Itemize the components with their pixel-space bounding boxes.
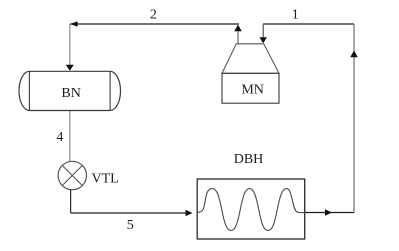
svg-text:1: 1 (292, 8, 299, 23)
heater DBH coil wave (197, 189, 305, 231)
svg-text:MN: MN (241, 83, 264, 98)
heater DBH rect (197, 179, 305, 239)
wire MN outlet up (237, 30, 239, 44)
wire VTL outlet down (70, 190, 72, 214)
wire stream 5 horizontal (71, 212, 187, 214)
svg-text:4: 4 (56, 130, 63, 145)
wire right riser (353, 24, 355, 213)
svg-text:5: 5 (127, 218, 134, 233)
arrowhead into MN (259, 37, 267, 43)
wire stream 1 drop into MN (262, 24, 264, 39)
arrowhead into BN (66, 65, 74, 71)
arrowhead MN outlet up (234, 25, 242, 32)
wire DBH outlet (305, 212, 354, 214)
arrowhead DBH outlet right (325, 209, 332, 216)
svg-text:DBH: DBH (234, 152, 264, 167)
arrowhead riser up (350, 51, 358, 58)
hopper MN body rect (222, 73, 279, 103)
vessel BN left seam (28, 71, 30, 110)
wire stream 2 horizontal (70, 23, 239, 25)
hopper MN trapezoid (222, 44, 279, 74)
wire stream 2 vertical into BN (69, 24, 71, 66)
svg-text:VTL: VTL (92, 172, 119, 187)
svg-text:BN: BN (61, 86, 80, 101)
valve VTL circle (58, 161, 86, 189)
wire stream 4 vertical (69, 111, 71, 162)
svg-text:2: 2 (150, 8, 157, 23)
valve VTL cross (62, 166, 82, 186)
wire stream 1 horizontal (263, 23, 354, 25)
arrowhead stream 5 right (186, 210, 193, 217)
arrowhead stream 2 left (70, 21, 77, 27)
vessel BN right seam (109, 71, 111, 110)
vessel BN body (19, 71, 120, 110)
